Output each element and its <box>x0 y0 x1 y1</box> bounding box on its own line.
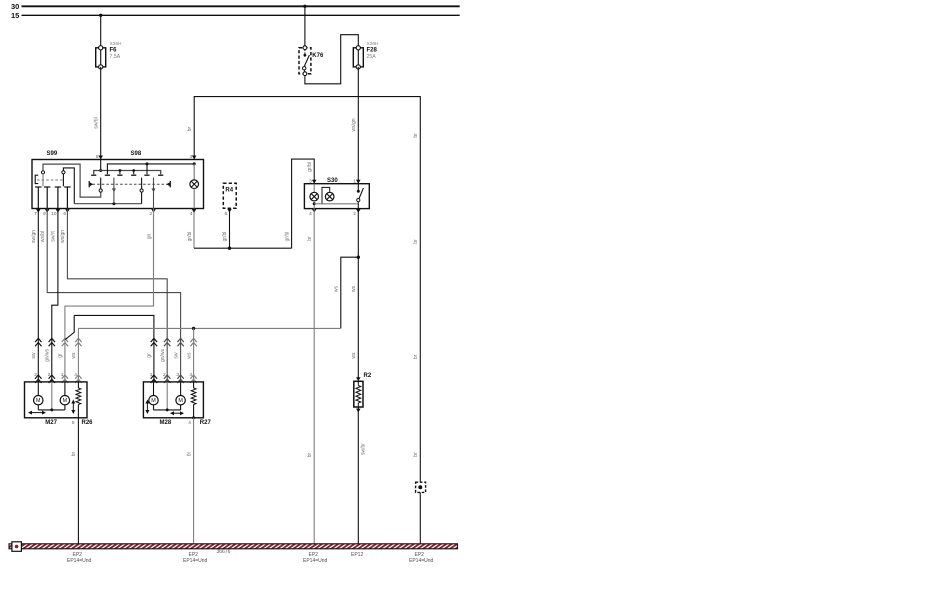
resistor R27 <box>193 382 195 388</box>
svg-text:5: 5 <box>225 211 228 217</box>
svg-text:F28: F28 <box>367 48 378 54</box>
svg-text:br: br <box>413 354 419 359</box>
svg-text:EP12: EP12 <box>351 552 363 558</box>
wire S30 pin 4 to ground, colour br <box>313 209 315 544</box>
svg-text:5: 5 <box>72 420 75 426</box>
wire R2 to ground, colour sw/br <box>357 407 359 544</box>
svg-text:X26H: X26H <box>367 41 380 47</box>
svg-text:sw/gn: sw/gn <box>31 230 37 243</box>
svg-text:br: br <box>413 239 419 244</box>
lamp 1 in S30 <box>313 184 315 193</box>
wire gr/bl to S30 pin 3 <box>292 159 315 248</box>
svg-text:S99: S99 <box>47 151 58 157</box>
svg-text:gr: gr <box>147 353 153 358</box>
svg-text:ws: ws <box>351 285 357 292</box>
M28 movement arrow horizontal <box>173 412 181 414</box>
wire bus30 to relay K76 <box>304 6 306 46</box>
svg-text:R26: R26 <box>82 420 94 426</box>
svg-text:F6: F6 <box>110 48 118 54</box>
svg-text:sw/rt: sw/rt <box>51 231 57 242</box>
wiper motor unit M28 with resistor R27 <box>143 382 203 418</box>
svg-text:br: br <box>307 236 313 241</box>
svg-text:7: 7 <box>34 211 37 217</box>
wire R26 pin 5 to ground, colour br <box>77 418 79 544</box>
svg-text:EP14=Und: EP14=Und <box>67 558 92 564</box>
S98 illumination lamp <box>193 164 195 180</box>
svg-text:EP14=Und: EP14=Und <box>303 558 328 564</box>
node: junction bus15 / F6 feed <box>99 14 102 17</box>
svg-text:M: M <box>63 398 68 404</box>
M27 movement arrow horizontal <box>31 412 43 414</box>
node: gr/bl junction at R4 <box>228 247 231 250</box>
svg-text:ws/gn: ws/gn <box>60 230 66 243</box>
wire S30 pin 2 down, colour ws <box>357 209 359 380</box>
bus line 15 <box>22 14 460 16</box>
svg-text:EP14=Und: EP14=Und <box>183 558 208 564</box>
S98 selector dashed line with end stops <box>93 183 168 185</box>
svg-text:gn: gn <box>146 234 152 240</box>
M28 common wire <box>166 382 168 410</box>
svg-text:sw: sw <box>31 352 37 359</box>
wire bus15 to fuse F6 <box>100 15 102 48</box>
wire K76 to fuse F28 <box>305 35 358 84</box>
M28 movement arrow vertical <box>146 403 148 412</box>
S99 internal wire to S98 movable 1 <box>43 164 101 197</box>
wire inside S30 lamp1 to switch <box>313 202 316 205</box>
svg-text:br: br <box>71 451 77 456</box>
svg-text:ws: ws <box>351 352 357 359</box>
motor M28 left <box>153 382 155 396</box>
svg-text:15: 15 <box>11 11 19 20</box>
svg-text:sw: sw <box>173 352 179 359</box>
switch S30 with illumination <box>304 184 369 209</box>
svg-text:M: M <box>151 398 156 404</box>
svg-text:4: 4 <box>188 420 191 426</box>
fuse F6 7,5A <box>100 48 102 67</box>
branch ws to wiper motors <box>341 257 359 328</box>
svg-text:gr/bl: gr/bl <box>222 232 228 242</box>
motor M27 right <box>64 382 66 396</box>
M27 common wire <box>51 382 53 410</box>
svg-text:4: 4 <box>190 211 193 217</box>
svg-text:br: br <box>413 133 419 138</box>
svg-text:gr: gr <box>58 353 64 358</box>
svg-text:7,5A: 7,5A <box>110 54 121 60</box>
svg-text:br: br <box>187 126 193 131</box>
svg-text:3: 3 <box>190 154 193 160</box>
svg-text:EP14=Und: EP14=Und <box>409 558 434 564</box>
svg-text:3: 3 <box>309 178 312 184</box>
wire crossover to M28 pin 1, colour gr <box>74 315 154 382</box>
S99 contact 1 <box>41 171 44 174</box>
S98 fixed contact tips <box>91 174 96 176</box>
wire S99 pin 10 to M27 pin 2, colour sw/rt <box>52 209 58 382</box>
ground rail end marker <box>12 542 22 552</box>
svg-text:S98: S98 <box>131 151 142 157</box>
svg-text:4: 4 <box>309 211 312 217</box>
svg-text:K76: K76 <box>312 53 324 59</box>
svg-text:gr/bl: gr/bl <box>284 232 290 242</box>
svg-text:M27: M27 <box>45 420 57 426</box>
svg-text:2: 2 <box>149 211 152 217</box>
motor M27 left <box>37 382 39 396</box>
svg-text:ws/bl: ws/bl <box>40 231 46 242</box>
fuse F28 25A <box>357 48 359 67</box>
svg-text:sw/bl: sw/bl <box>93 117 99 128</box>
svg-text:36676: 36676 <box>217 549 231 555</box>
node: junction bus30 / K76 feed <box>303 5 306 8</box>
svg-text:M28: M28 <box>160 420 172 426</box>
S98 internal common rail <box>74 203 141 205</box>
splice point on br ground wire <box>416 482 426 492</box>
S98 movable contact 2 <box>113 178 115 204</box>
svg-text:br: br <box>186 451 192 456</box>
wire S98 pin 3 to ground, colour br <box>194 97 420 544</box>
S99 contact 2 <box>62 171 65 174</box>
svg-text:br: br <box>413 452 419 457</box>
svg-text:R27: R27 <box>200 420 212 426</box>
wire F28 to S30 pin 1, colour ws/gn <box>357 67 359 184</box>
svg-text:30: 30 <box>11 2 19 11</box>
S99 fixed contact posts <box>35 186 41 188</box>
switch unit S99 S98 <box>32 160 204 209</box>
wire R27 to ground, colour br <box>193 418 195 544</box>
lamp 2 in S30 <box>325 192 334 201</box>
S98 pin 5 feed <box>100 160 102 171</box>
resistor R26 <box>77 382 79 388</box>
wire S98 pin 4 to node, colour gr/bl <box>193 209 195 249</box>
S98 upper bus black <box>107 164 194 174</box>
svg-text:1: 1 <box>353 178 356 184</box>
wiper motor unit M27 with resistor R26 <box>25 382 88 418</box>
relay contact K76 <box>299 48 311 74</box>
svg-text:5: 5 <box>96 154 99 160</box>
wire F6 to S98 pin 5, colour sw/bl <box>100 67 102 160</box>
svg-text:10: 10 <box>51 211 57 217</box>
svg-text:R2: R2 <box>364 373 372 379</box>
wire S98 pin 2 to M27 pin 1, colour gn <box>65 209 154 382</box>
svg-text:M: M <box>178 398 183 404</box>
svg-text:gr/bl: gr/bl <box>307 162 313 172</box>
wire R4 pin 5 <box>229 208 231 248</box>
svg-text:sw/br: sw/br <box>360 443 366 455</box>
bus line 30 <box>22 5 460 7</box>
svg-text:gn/ws: gn/ws <box>160 348 166 362</box>
svg-text:gr/bl: gr/bl <box>187 232 193 242</box>
S99 latch symbol <box>35 175 38 183</box>
node: ws junction at M28 pin 4 <box>192 327 195 330</box>
svg-text:ws/gn: ws/gn <box>351 118 357 131</box>
S98 movable contact 4 to pin 2 <box>153 178 155 209</box>
svg-text:2: 2 <box>353 211 356 217</box>
svg-text:M: M <box>36 398 41 404</box>
S99 selector dashed line <box>37 179 65 181</box>
svg-text:ws: ws <box>334 285 340 292</box>
wire S99 pin 9 to M28 pin 3, colour ws/bl <box>47 209 180 382</box>
S98 movable contact 3 <box>141 178 143 189</box>
svg-text:9: 9 <box>43 211 46 217</box>
S98 movable contact 1 <box>100 178 102 189</box>
resistor R2 <box>356 377 361 381</box>
S99 internal wire contact2 to common rail <box>63 168 74 204</box>
S98 upper bus gray <box>94 171 161 175</box>
wire S99 pin 6 to M28 pin 2, colour ws/gn <box>67 209 167 382</box>
svg-text:ws: ws <box>71 352 77 359</box>
motor M28 right <box>180 382 182 396</box>
wire S99 pin 7 to M27 pin 3, colour sw <box>37 209 39 382</box>
wire ws feed to M27 pin 4 and M28 pin 4 <box>78 327 340 329</box>
suppressor R4 <box>223 183 236 208</box>
svg-text:X26H: X26H <box>110 41 123 47</box>
svg-text:S30: S30 <box>327 178 338 184</box>
node: ws junction <box>357 256 360 259</box>
switch contact in S30 <box>357 184 359 192</box>
svg-text:25A: 25A <box>367 54 377 60</box>
svg-text:gn/ws: gn/ws <box>45 348 51 362</box>
svg-text:ws: ws <box>186 352 192 359</box>
svg-text:br: br <box>307 452 313 457</box>
svg-text:6: 6 <box>63 211 66 217</box>
svg-text:R4: R4 <box>225 188 233 194</box>
M27 movement arrow vertical <box>72 403 74 412</box>
